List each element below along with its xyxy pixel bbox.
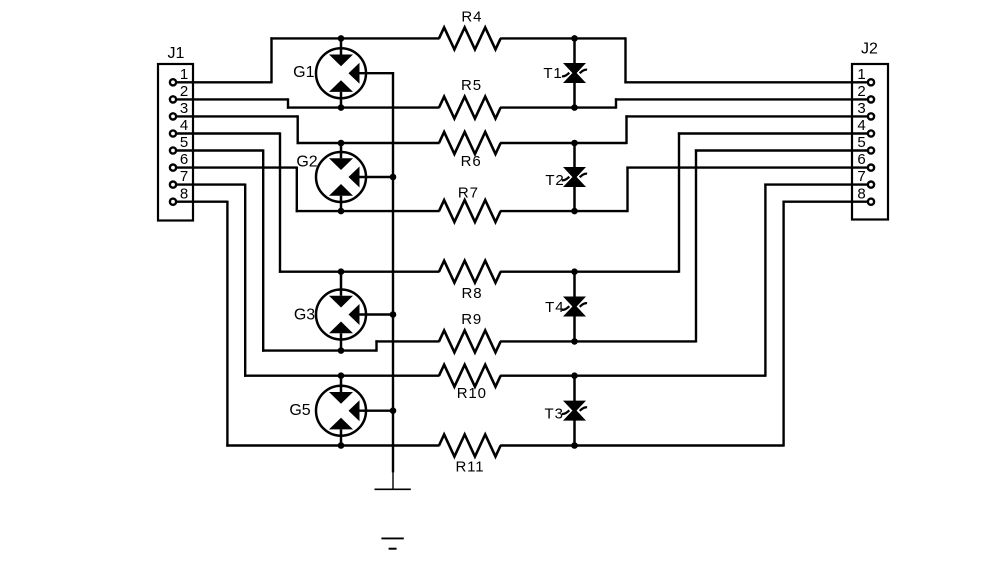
resistor R11 (439, 435, 501, 457)
svg-text:6: 6 (180, 151, 188, 168)
wire rise to J2 pin2 (615, 98, 617, 108)
wire J1 pin4 to corner (176, 132, 280, 134)
wire rise to J2 pin5 (695, 149, 697, 342)
wire R7 line right (500, 210, 627, 212)
wire R9 line right (500, 340, 696, 342)
junction T4 top (571, 268, 578, 275)
junction T3 top (571, 372, 578, 379)
wire riser pin1 (270, 37, 272, 83)
junction G2 bottom (338, 208, 345, 215)
svg-text:R9: R9 (461, 311, 482, 328)
svg-text:R8: R8 (462, 285, 483, 302)
wire rise to J2 pin4 (678, 132, 680, 272)
wire R11 line left (226, 444, 439, 446)
junction G5 top (338, 372, 345, 379)
wire step up R9 (375, 340, 377, 351)
svg-text:6: 6 (857, 151, 865, 168)
svg-text:G1: G1 (293, 64, 314, 81)
svg-text:8: 8 (180, 185, 188, 202)
svg-text:T4: T4 (545, 299, 564, 316)
wire R10 line right (500, 375, 765, 377)
svg-text:R5: R5 (461, 77, 482, 94)
junction G3 top (338, 268, 345, 275)
wire R4 line right (500, 37, 625, 39)
wire drop pin3 (297, 115, 299, 144)
ground bar 3 (389, 548, 397, 550)
resistor R6 (439, 132, 501, 154)
resistor R7 (439, 200, 501, 222)
svg-text:3: 3 (857, 100, 865, 117)
wire rise to J2 pin6 (626, 167, 628, 213)
wire R8 line left (279, 271, 440, 273)
ground bar 2 (381, 537, 403, 539)
resistor R9 (439, 330, 501, 352)
svg-text:T2: T2 (545, 172, 564, 189)
svg-text:3: 3 (180, 100, 188, 117)
svg-text:R4: R4 (461, 9, 482, 26)
svg-text:5: 5 (857, 134, 865, 151)
junction G1 bottom (338, 104, 345, 111)
junction G3 bottom (338, 347, 345, 354)
connector J1 (158, 64, 193, 221)
wire J1 pin7 to corner (176, 183, 245, 185)
wire drop pin4 (279, 132, 281, 272)
wire J1 pin8 to corner (176, 200, 227, 202)
svg-text:R7: R7 (458, 185, 479, 202)
junction G5 bottom (338, 442, 345, 449)
svg-text:R10: R10 (457, 385, 487, 402)
svg-text:1: 1 (857, 66, 865, 83)
resistor R8 (439, 261, 501, 283)
wire J1 pin5 to corner (176, 149, 263, 151)
ground stem (392, 471, 394, 489)
junction G1 top (338, 35, 345, 42)
svg-text:7: 7 (857, 168, 865, 185)
svg-text:R11: R11 (455, 459, 484, 476)
wire drop pin6 (296, 167, 298, 213)
wire R6 line right (500, 142, 626, 144)
wire to J2 pin8 (783, 200, 869, 202)
junction T2 bottom (571, 208, 578, 215)
wire R10 line left (244, 375, 439, 377)
wire R5 line left (287, 106, 440, 108)
junction on center bus at G2 (390, 174, 397, 181)
TVS diode T2 (562, 143, 587, 211)
wire R9 line left (375, 340, 439, 342)
wire J1 pin6 to corner (176, 166, 297, 168)
svg-text:G3: G3 (294, 307, 315, 324)
wire rise to J2 pin3 (625, 115, 627, 144)
wire R6 line left (297, 142, 440, 144)
wire to J2 pin6 (626, 166, 868, 168)
wire jog pin2 (287, 98, 289, 108)
svg-text:J1: J1 (168, 45, 185, 62)
junction T1 top (571, 35, 578, 42)
wire to J2 pin1 (624, 81, 868, 83)
wire R11 line right (500, 444, 783, 446)
wire J1 pin3 to corner (176, 115, 298, 117)
svg-text:J2: J2 (861, 41, 878, 58)
wire rise to J2 pin7 (764, 184, 766, 377)
connector J2 (852, 64, 888, 220)
junction G2 top (338, 140, 345, 147)
svg-text:8: 8 (857, 185, 865, 202)
wire rise to J2 pin8 (782, 201, 784, 447)
wire to J2 pin7 (764, 183, 868, 185)
TVS diode T1 (562, 38, 587, 107)
junction T4 bottom (571, 338, 578, 345)
wire to J2 pin4 (678, 132, 868, 134)
wire drop to J2 pin1 (624, 37, 626, 83)
wire to J2 pin5 (695, 149, 868, 151)
junction on center bus at G3 (390, 311, 397, 318)
junction T2 top (571, 140, 578, 147)
svg-text:4: 4 (857, 117, 865, 134)
wire drop pin7 (244, 184, 246, 377)
wire drop pin8 (226, 201, 228, 447)
junction on center bus at G5 (390, 407, 397, 414)
svg-text:1: 1 (180, 66, 188, 83)
junction T3 bottom (571, 442, 578, 449)
wire to J2 pin3 (625, 115, 868, 117)
svg-text:7: 7 (180, 168, 188, 185)
svg-text:T3: T3 (545, 406, 564, 423)
ground bar (375, 488, 411, 490)
TVS diode T3 (562, 376, 587, 446)
TVS diode T4 (562, 272, 587, 342)
svg-text:5: 5 (180, 134, 188, 151)
svg-text:T1: T1 (543, 65, 562, 82)
wire to J2 pin2 (615, 98, 868, 100)
junction T1 bottom (571, 104, 578, 111)
wire J1 pin2 to corner (176, 98, 288, 100)
svg-text:2: 2 (180, 83, 188, 100)
svg-text:G5: G5 (289, 402, 310, 419)
svg-text:R6: R6 (461, 153, 482, 170)
surge arrester G5 (316, 376, 393, 446)
resistor R4 (439, 27, 501, 49)
surge arrester G3 (316, 272, 393, 351)
resistor R10 (439, 365, 501, 387)
wire J1 pin1 to corner (176, 81, 271, 83)
wire R4 line left (270, 37, 439, 39)
wire center bus vertical (392, 72, 394, 472)
wire R7 line left (296, 210, 440, 212)
surge arrester G1 (316, 38, 394, 107)
wire drop pin5 (262, 149, 264, 351)
wire R8 line right (500, 271, 679, 273)
wire R5 line right (500, 106, 616, 108)
surge arrester G2 (316, 143, 393, 211)
svg-text:4: 4 (180, 117, 188, 134)
wire G3 bottom segment (262, 349, 376, 351)
resistor R5 (439, 97, 501, 119)
svg-text:2: 2 (857, 83, 865, 100)
svg-text:G2: G2 (296, 154, 317, 171)
